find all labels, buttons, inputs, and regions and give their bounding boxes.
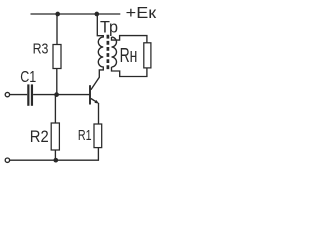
svg-text:Тр: Тр [100,19,118,37]
wire C1 to transistor base [33,94,89,96]
node base junction [54,92,59,97]
wire secondary bottom to Rn [112,67,147,77]
wire bottom rail and R1 bottom [10,148,99,161]
wire secondary top to Rn [112,36,147,43]
node R2 ground junction [53,158,58,163]
input terminal [5,92,9,96]
capacitor C1 [27,84,29,105]
transformer Tp primary winding and collector wire [91,13,103,89]
svg-text:R2: R2 [30,127,49,146]
node R3 top junction [55,12,60,17]
wire top supply rail [31,13,121,15]
resistor R3 [53,45,61,69]
resistor Rn load [144,43,151,68]
transformer Tp secondary winding [112,37,117,67]
wire R2 to base junction [54,95,56,123]
resistor R2 [51,123,59,150]
transistor VT emitter [91,99,97,103]
wire emitter to R1 [98,103,100,124]
svg-text:C1: C1 [20,69,36,86]
svg-text:+Ек: +Ек [126,5,158,22]
svg-text:R1: R1 [78,128,92,144]
node transformer supply junction [94,12,99,17]
ground terminal [5,158,9,162]
svg-text:R3: R3 [33,40,49,57]
transistor VT base bar [89,85,91,104]
wire R3 to top rail [56,13,58,44]
resistor R1 [94,124,102,148]
wire R2 to bottom rail [54,150,56,160]
svg-text:Rн: Rн [120,44,138,67]
wire R3 to base junction [56,69,58,95]
transformer Tp core [107,35,110,70]
transistor VT emitter arrow [94,100,99,104]
wire input to C1 [10,94,28,96]
